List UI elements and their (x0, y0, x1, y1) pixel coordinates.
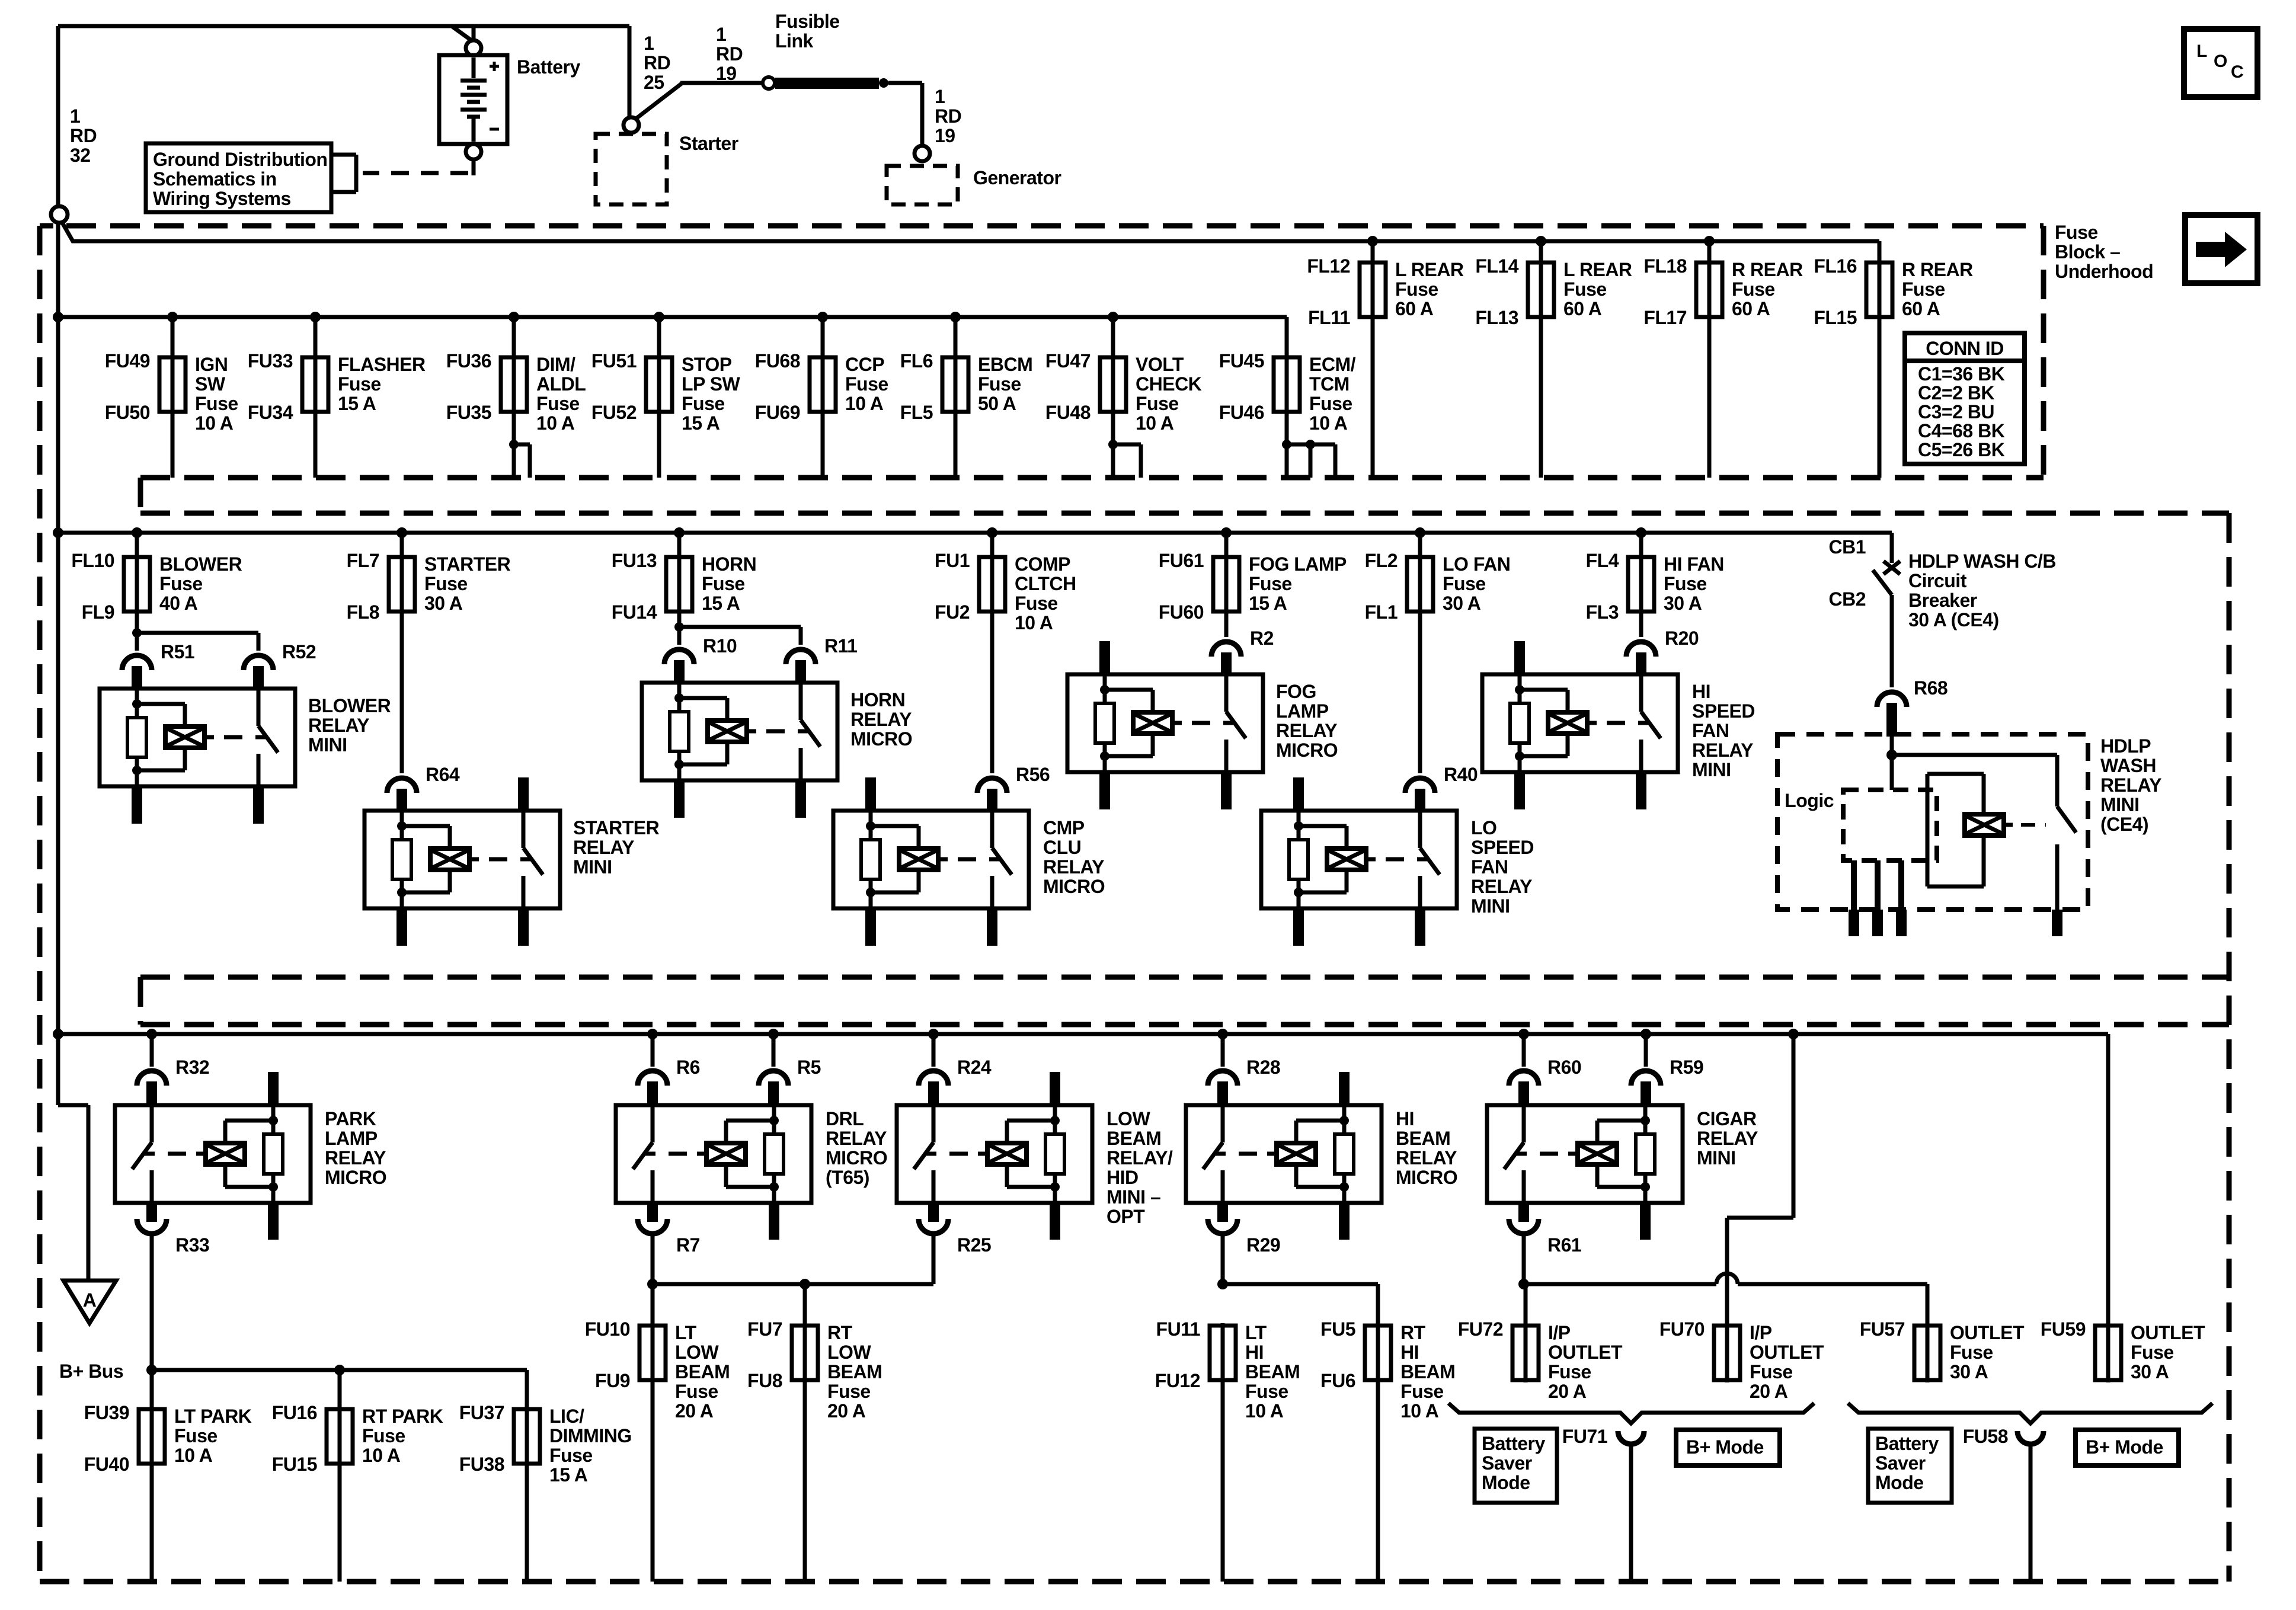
wire LT HI BEAM to bottom (1221, 1380, 1225, 1582)
svg-text:RD: RD (935, 105, 961, 127)
svg-text:FL7: FL7 (347, 550, 379, 571)
svg-text:R56: R56 (1016, 764, 1050, 785)
wire R61 to outlet fuse feed (1522, 1232, 1526, 1284)
svg-text:MINI –: MINI – (1107, 1186, 1160, 1208)
svg-text:FU12: FU12 (1155, 1370, 1200, 1391)
svg-text:COMP: COMP (1015, 553, 1070, 575)
svg-text:20 A: 20 A (1548, 1381, 1587, 1402)
svg-text:LT: LT (1245, 1322, 1267, 1343)
node A B+ Bus triangle (63, 1281, 116, 1323)
wire R68 into hdlp wash relay (1890, 737, 1894, 790)
wire fuse bus 1 (58, 315, 1287, 319)
svg-text:R REAR: R REAR (1732, 259, 1803, 280)
svg-text:I/P: I/P (1750, 1322, 1772, 1343)
svg-text:FU46: FU46 (1219, 402, 1264, 423)
svg-text:B+ Mode: B+ Mode (2086, 1436, 2163, 1458)
svg-text:LO: LO (1471, 817, 1496, 838)
svg-text:FU61: FU61 (1159, 550, 1204, 571)
node starter terminal (623, 117, 639, 133)
wire fusible link to generator (888, 81, 922, 85)
svg-text:WASH: WASH (2100, 755, 2156, 776)
svg-text:Fuse: Fuse (1750, 1361, 1793, 1382)
wire diagonal starter to fusible link (635, 84, 682, 119)
svg-text:Fuse: Fuse (1902, 279, 1945, 300)
brace FU58 group (1848, 1403, 2212, 1423)
svg-text:FAN: FAN (1692, 720, 1729, 741)
svg-text:1: 1 (935, 86, 945, 107)
svg-text:RT: RT (1400, 1322, 1426, 1343)
svg-text:BEAM: BEAM (1400, 1361, 1455, 1382)
fuse FU59 OUTLET (2106, 1323, 2110, 1382)
svg-text:Fuse: Fuse (362, 1425, 405, 1446)
svg-text:Wiring Systems: Wiring Systems (153, 188, 291, 209)
arrow continuation box (2185, 215, 2257, 283)
svg-text:SW: SW (195, 373, 226, 395)
svg-text:R68: R68 (1914, 677, 1948, 699)
svg-text:FU72: FU72 (1458, 1318, 1503, 1340)
svg-text:CONN ID: CONN ID (1926, 338, 2004, 359)
connector R11 (786, 649, 816, 664)
svg-text:FOG: FOG (1276, 681, 1316, 702)
svg-text:10 A: 10 A (1015, 612, 1053, 633)
svg-text:RD: RD (70, 125, 97, 146)
svg-text:Battery: Battery (1875, 1433, 1939, 1454)
svg-text:BLOWER: BLOWER (308, 695, 391, 716)
svg-text:25: 25 (644, 72, 664, 93)
svg-text:1: 1 (70, 105, 80, 127)
svg-text:Fuse: Fuse (1400, 1381, 1444, 1402)
svg-text:RELAY/: RELAY/ (1107, 1147, 1173, 1169)
battery saver mode box 2 (1868, 1429, 1952, 1503)
relay cigar CIGAR RELAY MINI (1487, 1105, 1683, 1203)
svg-text:Schematics in: Schematics in (153, 168, 277, 190)
svg-text:Fuse: Fuse (978, 373, 1021, 395)
fuse FU39/FU40 LT PARK (150, 1407, 154, 1466)
svg-text:MINI: MINI (1692, 759, 1731, 780)
svg-text:FU68: FU68 (755, 350, 800, 372)
wire LT LOW BEAM to bottom (651, 1380, 655, 1582)
svg-text:20 A: 20 A (1750, 1381, 1788, 1402)
svg-text:OPT: OPT (1107, 1206, 1145, 1227)
svg-text:OUTLET: OUTLET (1548, 1342, 1623, 1363)
svg-text:FU14: FU14 (612, 601, 657, 623)
svg-text:R7: R7 (676, 1234, 700, 1256)
svg-text:HI FAN: HI FAN (1664, 553, 1724, 575)
fuse FU49/FU50 IGN (167, 312, 178, 322)
B+ mode box 1 (1676, 1430, 1780, 1465)
svg-text:DRL: DRL (826, 1108, 864, 1129)
svg-text:FL6: FL6 (900, 350, 933, 372)
svg-text:15 A: 15 A (549, 1464, 588, 1486)
fuse FL18/FL17 R REAR 60A (1704, 236, 1715, 247)
svg-text:HI: HI (1692, 681, 1710, 702)
svg-text:RELAY: RELAY (1697, 1128, 1758, 1149)
svg-text:FU38: FU38 (459, 1454, 504, 1475)
svg-text:FU13: FU13 (612, 550, 657, 571)
connector R2 (1211, 642, 1241, 657)
fuse FU33/FU34 FLASHER (310, 312, 321, 322)
svg-text:STARTER: STARTER (424, 553, 511, 575)
svg-text:FU57: FU57 (1860, 1318, 1905, 1340)
svg-text:STOP: STOP (682, 354, 732, 375)
connector R59 (1631, 1071, 1661, 1086)
svg-text:FU39: FU39 (84, 1402, 129, 1423)
svg-text:R60: R60 (1547, 1057, 1581, 1078)
svg-text:CCP: CCP (845, 354, 884, 375)
svg-text:BEAM: BEAM (1396, 1128, 1450, 1149)
wire bus to R32 (146, 1029, 157, 1039)
wire relay fuse bus 2 (58, 531, 1892, 535)
fuse FU57 OUTLET (1926, 1323, 1930, 1382)
svg-text:FL15: FL15 (1814, 307, 1857, 328)
svg-text:FL2: FL2 (1365, 550, 1398, 571)
fuse block underhood dashed border (66, 223, 2044, 229)
svg-text:FL16: FL16 (1814, 255, 1857, 277)
svg-text:60 A: 60 A (1902, 298, 1940, 319)
svg-text:FU49: FU49 (105, 350, 150, 372)
svg-text:PARK: PARK (325, 1108, 376, 1129)
relay blower BLOWER RELAY MINI (100, 689, 295, 786)
svg-text:HI: HI (1245, 1342, 1264, 1363)
svg-text:CB2: CB2 (1828, 588, 1866, 610)
bottom section top dashed border (140, 1022, 2229, 1028)
svg-text:30 A: 30 A (1664, 593, 1702, 614)
svg-text:FU59: FU59 (2041, 1318, 2086, 1340)
svg-text:(CE4): (CE4) (2100, 814, 2148, 835)
svg-text:10 A: 10 A (1136, 412, 1174, 434)
switch hdlp wash relay (2055, 755, 2060, 806)
svg-text:R10: R10 (703, 635, 737, 657)
svg-text:C5=26 BK: C5=26 BK (1918, 439, 2005, 460)
svg-text:30 A: 30 A (2131, 1361, 2169, 1382)
svg-text:C1=36 BK: C1=36 BK (1918, 363, 2005, 385)
fusible link (763, 77, 775, 89)
svg-text:FU50: FU50 (105, 402, 150, 423)
svg-text:BEAM: BEAM (827, 1361, 882, 1382)
svg-text:HI: HI (1396, 1108, 1414, 1129)
svg-text:FU48: FU48 (1045, 402, 1091, 423)
svg-text:HORN: HORN (850, 689, 905, 710)
svg-text:RELAY: RELAY (308, 715, 369, 736)
svg-text:MINI: MINI (573, 856, 612, 878)
svg-text:50 A: 50 A (978, 393, 1016, 414)
connector R33 (137, 1219, 167, 1234)
wire bus end to FU59 outlet (2106, 1034, 2110, 1326)
svg-text:Mode: Mode (1875, 1472, 1924, 1493)
svg-text:L REAR: L REAR (1563, 259, 1632, 280)
right dashed border (2227, 513, 2232, 1582)
wire FU72 feed (1524, 1284, 1528, 1326)
svg-text:R32: R32 (175, 1057, 209, 1078)
wire relay bus 3 (58, 1032, 2108, 1036)
fuse FU11 LT HI BEAM (1221, 1323, 1225, 1382)
svg-text:Fuse: Fuse (195, 393, 238, 414)
svg-text:FL8: FL8 (347, 601, 379, 623)
fuse FL12/FL11 L REAR 60A (1367, 236, 1378, 247)
svg-text:EBCM: EBCM (978, 354, 1032, 375)
svg-text:FU40: FU40 (84, 1454, 129, 1475)
wire horn fuse to relay jumper (677, 612, 682, 627)
svg-text:10 A: 10 A (1400, 1400, 1439, 1422)
svg-text:FL12: FL12 (1307, 255, 1350, 277)
svg-text:Ground Distribution: Ground Distribution (153, 149, 327, 170)
svg-text:R52: R52 (282, 641, 316, 662)
svg-text:Fuse: Fuse (549, 1445, 593, 1466)
wire blower fuse to relay jumper (135, 612, 139, 633)
fuse FL10/FL9 BLOWER (132, 527, 142, 538)
svg-text:Fuse: Fuse (702, 573, 745, 594)
svg-text:FU15: FU15 (272, 1454, 317, 1475)
svg-text:Fuse: Fuse (1245, 1381, 1288, 1402)
svg-text:Fusible: Fusible (775, 11, 840, 32)
svg-text:VOLT: VOLT (1136, 354, 1184, 375)
svg-text:FU47: FU47 (1045, 350, 1091, 372)
svg-text:RD: RD (716, 43, 743, 65)
svg-text:R24: R24 (957, 1057, 992, 1078)
svg-text:Fuse: Fuse (1950, 1342, 1993, 1363)
svg-text:Fuse: Fuse (1015, 593, 1058, 614)
svg-text:FL4: FL4 (1586, 550, 1619, 571)
relay low beam LOW BEAM RELAY/HID MINI-OPT (897, 1105, 1092, 1203)
generator dashed box (887, 166, 958, 204)
svg-text:SPEED: SPEED (1692, 700, 1755, 722)
fuse FL6/FL5 EBCM (950, 312, 961, 322)
wire bus to R6 (647, 1029, 658, 1039)
svg-text:OUTLET: OUTLET (2131, 1322, 2205, 1343)
svg-text:R29: R29 (1246, 1234, 1280, 1256)
svg-text:CIGAR: CIGAR (1697, 1108, 1757, 1129)
fuse FU1/FU2 COMP (987, 527, 997, 538)
svg-text:CB1: CB1 (1828, 536, 1866, 558)
svg-text:Fuse: Fuse (536, 393, 580, 414)
fuse FU51/FU52 STOP (654, 312, 664, 322)
fuse FL7/FL8 STARTER (396, 527, 407, 538)
svg-text:Saver: Saver (1875, 1452, 1926, 1474)
starter dashed box (596, 134, 667, 204)
LOC reference box (2184, 29, 2257, 97)
connector FU58 (2017, 1431, 2044, 1444)
svg-text:Generator: Generator (973, 167, 1061, 188)
svg-text:FU34: FU34 (248, 402, 293, 423)
svg-text:RELAY: RELAY (826, 1128, 887, 1149)
svg-text:FL18: FL18 (1643, 255, 1687, 277)
battery negative terminal (466, 144, 481, 159)
fuse FU10 LT LOW BEAM (651, 1323, 655, 1382)
fuse FU5 RT HI BEAM (1376, 1323, 1380, 1382)
svg-text:Battery: Battery (1482, 1433, 1545, 1454)
svg-text:FU58: FU58 (1963, 1426, 2008, 1447)
wire R7 to low beam fuses (651, 1232, 655, 1284)
wire to RT LOW BEAM fuse (803, 1284, 807, 1326)
svg-text:TCM: TCM (1309, 373, 1350, 395)
circuit breaker CB1/CB2 HDLP WASH C/B (1890, 533, 1894, 563)
svg-text:10 A: 10 A (174, 1445, 213, 1466)
wire bus to R28 (1217, 1029, 1228, 1039)
svg-text:Fuse: Fuse (1548, 1361, 1591, 1382)
connector R56 (977, 778, 1007, 793)
svg-text:RT PARK: RT PARK (362, 1406, 443, 1427)
svg-text:FU8: FU8 (747, 1370, 782, 1391)
svg-text:MINI: MINI (2100, 794, 2140, 815)
wire 60A fuse feed (62, 222, 73, 242)
bottom dashed border (40, 1579, 2229, 1585)
svg-text:R61: R61 (1547, 1234, 1581, 1256)
wire battery ground dashed (472, 159, 476, 175)
wire FU71 to bottom (1629, 1444, 1633, 1582)
svg-text:STARTER: STARTER (573, 817, 660, 838)
svg-text:MINI: MINI (1697, 1147, 1736, 1169)
fuse FU61/FU60 FOG LAMP (1221, 527, 1232, 538)
svg-text:Circuit: Circuit (1908, 570, 1967, 591)
svg-text:LT PARK: LT PARK (174, 1406, 252, 1427)
svg-text:Fuse: Fuse (1395, 279, 1438, 300)
svg-text:R25: R25 (957, 1234, 991, 1256)
svg-text:FLASHER: FLASHER (338, 354, 426, 375)
svg-text:DIM/: DIM/ (536, 354, 575, 375)
svg-text:Block –: Block – (2055, 241, 2120, 263)
battery BAT (439, 55, 507, 144)
svg-text:ALDL: ALDL (536, 373, 586, 395)
svg-text:Fuse: Fuse (174, 1425, 218, 1446)
svg-text:C3=2 BU: C3=2 BU (1918, 401, 1994, 422)
svg-text:Fuse: Fuse (1136, 393, 1179, 414)
wire RT LOW BEAM to bottom (803, 1380, 807, 1582)
svg-text:C2=2 BK: C2=2 BK (1918, 382, 1994, 404)
wire RT PARK to bottom (338, 1464, 342, 1582)
svg-text:Battery: Battery (517, 56, 580, 78)
svg-text:MICRO: MICRO (826, 1147, 887, 1169)
relay fog lamp FOG LAMP RELAY MICRO (1067, 674, 1263, 772)
svg-text:R20: R20 (1665, 628, 1699, 649)
svg-text:Fuse: Fuse (2131, 1342, 2174, 1363)
svg-text:FU45: FU45 (1219, 350, 1264, 372)
wire RT HI BEAM to bottom (1376, 1380, 1380, 1582)
svg-text:Link: Link (775, 30, 813, 52)
svg-text:R28: R28 (1246, 1057, 1280, 1078)
svg-text:Fuse: Fuse (338, 373, 381, 395)
fuse FU13/FU14 HORN (674, 527, 685, 538)
svg-text:60 A: 60 A (1732, 298, 1770, 319)
wire R25 to low beam feed (932, 1232, 936, 1284)
svg-text:Fuse: Fuse (682, 393, 725, 414)
wire hi fan fuse to R20 (1639, 612, 1643, 637)
connector R6 (638, 1071, 667, 1086)
svg-text:HID: HID (1107, 1167, 1139, 1188)
svg-text:15 A: 15 A (702, 593, 740, 614)
svg-text:LOW: LOW (827, 1342, 871, 1363)
svg-text:FL9: FL9 (82, 601, 114, 623)
connector R29 (1208, 1219, 1237, 1234)
svg-text:Fuse: Fuse (1249, 573, 1292, 594)
fuse FL14/FL13 L REAR 60A (1536, 236, 1546, 247)
svg-text:10 A: 10 A (1309, 412, 1348, 434)
svg-text:FU16: FU16 (272, 1402, 317, 1423)
svg-text:Fuse: Fuse (1732, 279, 1775, 300)
svg-text:CLTCH: CLTCH (1015, 573, 1076, 594)
svg-text:FL11: FL11 (1308, 307, 1350, 328)
svg-text:FU69: FU69 (755, 402, 800, 423)
svg-text:(T65): (T65) (826, 1167, 869, 1188)
relay cmp clutch CMP CLU RELAY MICRO (833, 811, 1029, 908)
svg-text:Fuse: Fuse (424, 573, 468, 594)
svg-text:15 A: 15 A (1249, 593, 1287, 614)
wire R33 to park lamp fuse bus (150, 1232, 154, 1370)
svg-text:30 A: 30 A (1950, 1361, 1988, 1382)
wire hi beam fuse feed (1221, 1232, 1225, 1284)
fuse FU70 I/P OUTLET (1725, 1323, 1729, 1382)
svg-text:FAN: FAN (1471, 856, 1508, 878)
svg-text:1: 1 (716, 24, 726, 45)
svg-text:RT: RT (827, 1322, 853, 1343)
connector R5 (759, 1071, 788, 1086)
svg-text:FOG LAMP: FOG LAMP (1249, 553, 1347, 575)
svg-text:R64: R64 (426, 764, 460, 785)
wire left vertical main feed (56, 26, 60, 1034)
svg-text:19: 19 (716, 63, 737, 84)
svg-text:L: L (2196, 41, 2207, 61)
svg-text:Starter: Starter (679, 133, 738, 154)
svg-text:FU52: FU52 (591, 402, 637, 423)
wire outlet fuse feed with crossover hop (1524, 1282, 1716, 1286)
svg-text:19: 19 (935, 125, 955, 146)
svg-text:FL13: FL13 (1475, 307, 1518, 328)
wire top feed from battery bus (58, 24, 629, 28)
svg-text:FU60: FU60 (1159, 601, 1204, 623)
svg-text:RELAY: RELAY (2100, 774, 2161, 796)
connector R64 (387, 778, 417, 793)
svg-text:LIC/: LIC/ (549, 1406, 584, 1427)
svg-text:Fuse: Fuse (1309, 393, 1352, 414)
wire to LT LOW BEAM fuse (651, 1284, 655, 1326)
svg-text:Fuse: Fuse (1443, 573, 1486, 594)
svg-text:10 A: 10 A (362, 1445, 401, 1466)
relay horn HORN RELAY MICRO (642, 683, 837, 780)
wire bus to R60 (1518, 1029, 1529, 1039)
svg-text:FU71: FU71 (1562, 1426, 1607, 1447)
svg-text:FU1: FU1 (935, 550, 970, 571)
svg-text:FU70: FU70 (1659, 1318, 1705, 1340)
connector R40 (1405, 778, 1435, 793)
wire lo fan fuse to R40 (1418, 612, 1422, 773)
relay hi speed fan HI SPEED FAN RELAY MINI (1482, 674, 1678, 772)
wire starter fuse to R64 (400, 612, 404, 773)
wire comp cltch fuse to R56 (990, 612, 994, 773)
relay park lamp PARK LAMP RELAY MICRO (115, 1105, 311, 1203)
coil hdlp wash relay (1926, 774, 1930, 886)
svg-text:R11: R11 (824, 635, 857, 657)
relay hdlp wash HDLP WASH RELAY MINI dashed box (1777, 734, 2088, 910)
svg-text:15 A: 15 A (682, 412, 720, 434)
battery B+ terminal (466, 40, 481, 56)
svg-text:LOW: LOW (1107, 1108, 1150, 1129)
wire bus jog to FU70 I/P outlet (1788, 1029, 1799, 1039)
svg-text:Fuse: Fuse (1664, 573, 1707, 594)
svg-text:FU2: FU2 (935, 601, 970, 623)
svg-text:R5: R5 (797, 1057, 821, 1078)
svg-text:LAMP: LAMP (325, 1128, 378, 1149)
svg-text:Breaker: Breaker (1908, 590, 1977, 611)
svg-text:FU10: FU10 (585, 1318, 630, 1340)
svg-text:FL1: FL1 (1365, 601, 1398, 623)
connector R52 (244, 655, 273, 670)
relay drl DRL RELAY MICRO (T65) (616, 1105, 811, 1203)
connector R24 (919, 1071, 948, 1086)
svg-text:MICRO: MICRO (1396, 1167, 1457, 1188)
svg-text:B+ Bus: B+ Bus (59, 1361, 123, 1382)
svg-text:FL3: FL3 (1586, 601, 1619, 623)
svg-text:RELAY: RELAY (1692, 740, 1753, 761)
svg-text:15 A: 15 A (338, 393, 376, 414)
